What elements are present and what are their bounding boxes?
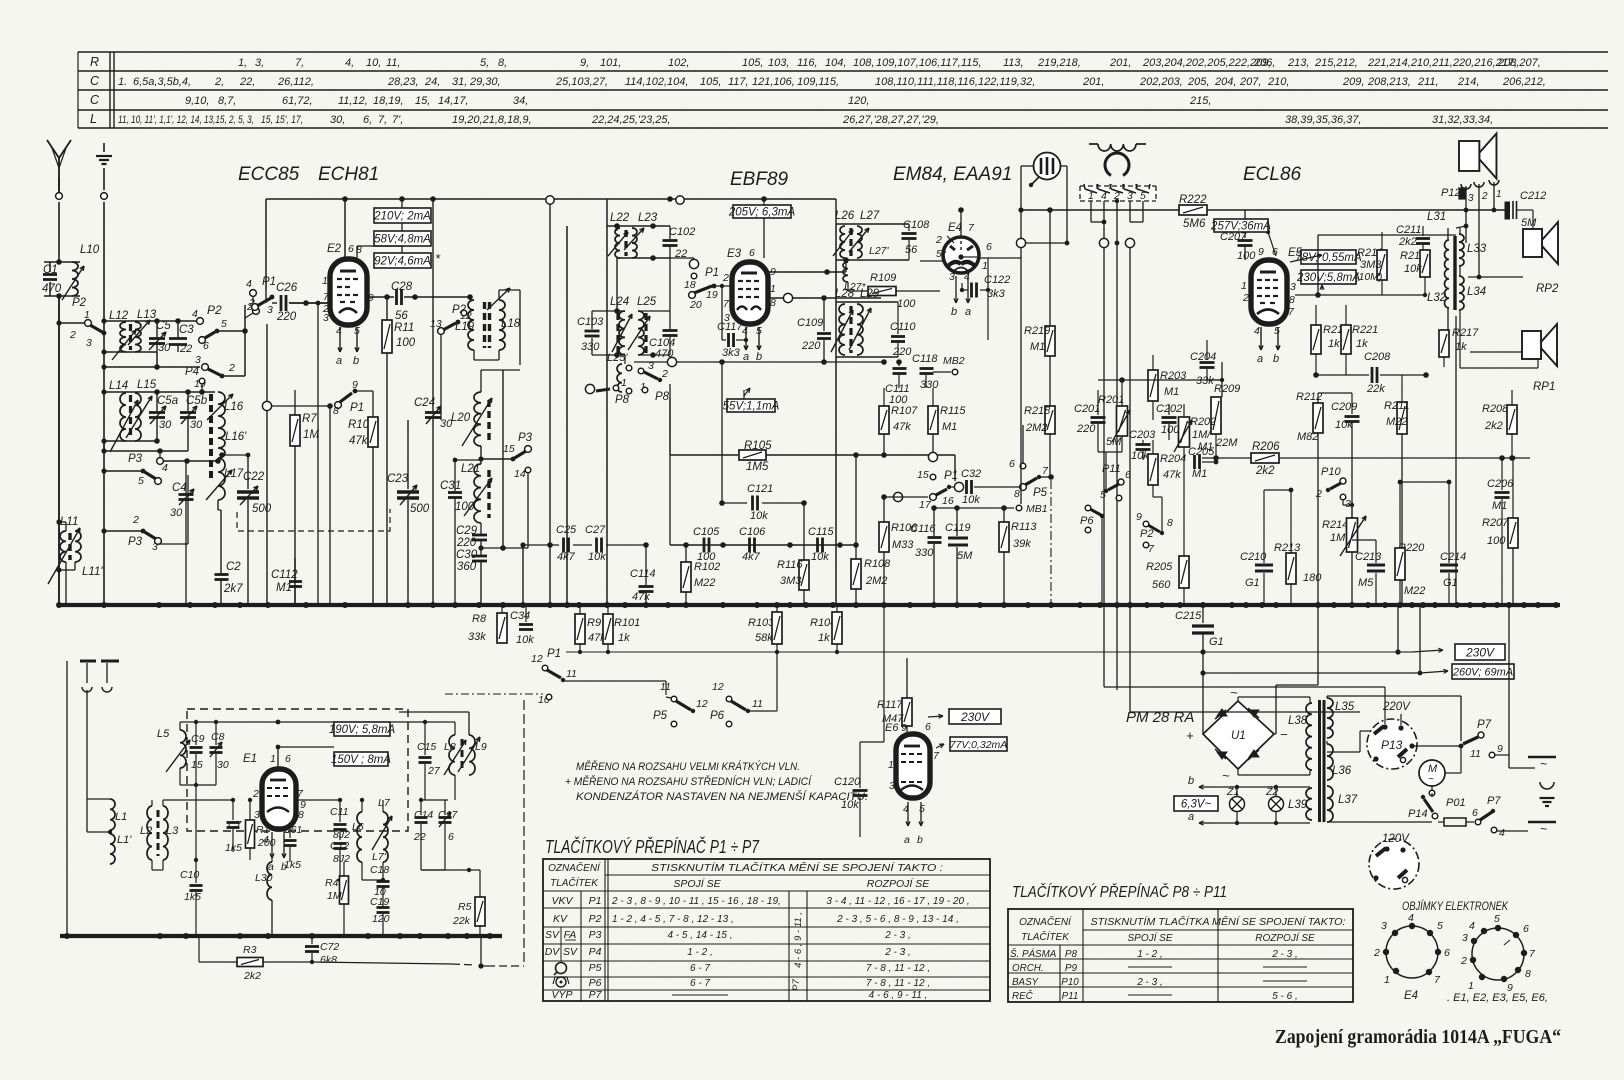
inductor L11 xyxy=(48,516,80,584)
core L12/L13 xyxy=(129,324,132,350)
capacitor C210 xyxy=(1240,488,1293,605)
svg-text:L32: L32 xyxy=(1427,292,1447,304)
switch P2 c xyxy=(1136,497,1173,555)
svg-text:39k: 39k xyxy=(1013,538,1031,550)
wire bridge top xyxy=(1238,697,1310,703)
svg-text:121,106,: 121,106, xyxy=(752,76,795,88)
table2 header xyxy=(1019,915,1346,944)
svg-text:ECC85: ECC85 xyxy=(238,164,300,185)
svg-text:7 - 8 , 11 - 12 ,: 7 - 8 , 11 - 12 , xyxy=(866,978,930,989)
svg-text:C23: C23 xyxy=(387,473,409,485)
svg-text:b: b xyxy=(917,834,923,846)
wire measure 260V line xyxy=(1203,605,1448,675)
svg-text:2: 2 xyxy=(228,362,235,374)
svg-text:R207: R207 xyxy=(1482,517,1509,529)
svg-text:210,: 210, xyxy=(1267,76,1289,88)
svg-text:R4: R4 xyxy=(325,877,339,889)
capacitor C61 xyxy=(283,824,302,871)
capacitor C102 xyxy=(663,226,696,260)
svg-text:8: 8 xyxy=(1167,517,1173,529)
svg-text:R9: R9 xyxy=(587,617,601,629)
svg-text:5M: 5M xyxy=(1106,436,1122,448)
core L21 xyxy=(487,470,490,518)
svg-text:7,: 7, xyxy=(378,114,387,126)
svg-text:6: 6 xyxy=(1444,947,1450,959)
svg-text:15: 15 xyxy=(503,443,515,455)
wire L2 L3 rails xyxy=(110,800,186,876)
wire dashdot p5 line xyxy=(1050,480,1052,605)
svg-text:P3: P3 xyxy=(128,453,143,465)
capacitor C119 xyxy=(945,508,973,605)
svg-text:C11: C11 xyxy=(330,806,348,818)
svg-text:b: b xyxy=(756,351,762,363)
svg-text:1: 1 xyxy=(270,753,276,765)
core L26/27 xyxy=(849,228,852,256)
svg-text:6: 6 xyxy=(1009,458,1015,470)
tube E3 EBF89 xyxy=(732,262,768,324)
label ECH81 xyxy=(318,164,379,185)
svg-text:210V; 2mA: 210V; 2mA xyxy=(373,211,431,223)
svg-text:58k: 58k xyxy=(755,632,773,644)
wire L11 leads xyxy=(56,519,75,605)
svg-text:18,19,: 18,19, xyxy=(373,95,404,107)
svg-text:3: 3 xyxy=(1381,920,1387,932)
svg-text:ROZPOJÍ SE: ROZPOJÍ SE xyxy=(867,877,930,890)
table1 grid xyxy=(543,859,990,1001)
svg-text:C25: C25 xyxy=(556,524,577,536)
svg-text:6 - 7: 6 - 7 xyxy=(690,963,710,974)
svg-text:8,: 8, xyxy=(498,57,507,69)
core L11 xyxy=(68,533,71,560)
mains pin stems xyxy=(1091,199,1143,238)
svg-text:Š. PÁSMA: Š. PÁSMA xyxy=(1010,949,1057,960)
terminal MB2 xyxy=(926,355,965,375)
svg-text:20: 20 xyxy=(689,299,702,311)
svg-text:P4: P4 xyxy=(589,946,602,958)
svg-text:4 - 6 , 9 - 11 ,: 4 - 6 , 9 - 11 , xyxy=(869,990,928,1001)
svg-text:33k: 33k xyxy=(468,631,486,643)
core L2/L3 xyxy=(157,810,160,856)
svg-text:22k: 22k xyxy=(452,915,471,927)
inductor L27'' xyxy=(843,262,867,293)
wire x695 down xyxy=(693,298,695,605)
svg-text:E6: E6 xyxy=(885,722,899,734)
svg-text:26,27,'28,27,27,'29,: 26,27,'28,27,27,'29, xyxy=(842,114,939,126)
svg-text:C7: C7 xyxy=(228,819,243,831)
switch P14 xyxy=(1408,790,1438,820)
svg-text:2 - 3 , 5 - 6 , 8 - 9 ,: 2 - 3 , 5 - 6 , 8 - 9 , 13 - 14 , xyxy=(836,914,959,925)
svg-text:204,: 204, xyxy=(1214,76,1236,88)
inductor L2 xyxy=(140,806,152,860)
core L16 xyxy=(209,394,213,478)
svg-text:6: 6 xyxy=(348,243,354,255)
svg-text:230V: 230V xyxy=(1465,645,1495,659)
svg-text:C61: C61 xyxy=(283,824,302,836)
resistor R10 xyxy=(348,391,378,605)
wire avc line xyxy=(634,357,887,366)
svg-text:P1: P1 xyxy=(350,402,364,414)
svg-text:100: 100 xyxy=(897,298,916,310)
svg-text:28,23,: 28,23, xyxy=(387,76,419,88)
capacitor C12 xyxy=(330,840,350,882)
svg-text:R: R xyxy=(90,55,99,69)
svg-text:4: 4 xyxy=(1254,325,1260,337)
svg-text:5: 5 xyxy=(1437,920,1443,932)
resistor R212 xyxy=(1296,391,1323,605)
svg-text:OZNAČENÍ: OZNAČENÍ xyxy=(548,861,602,874)
wire vertical x330 xyxy=(329,406,331,605)
gramophone pickup xyxy=(1021,153,1067,188)
capacitor C201 xyxy=(1074,390,1106,452)
svg-text:U1: U1 xyxy=(1231,730,1246,742)
ground symbol top xyxy=(96,143,112,190)
svg-text:ROZPOJÍ SE: ROZPOJÍ SE xyxy=(1255,931,1315,944)
svg-text:2: 2 xyxy=(722,272,729,284)
svg-text:R211: R211 xyxy=(1384,400,1409,412)
capacitor C205 xyxy=(1184,446,1218,480)
svg-text:MĚŘENO NA ROZSAHU VELMI KRÁTKÝ: MĚŘENO NA ROZSAHU VELMI KRÁTKÝCH VLN. xyxy=(576,760,800,773)
svg-text:P2: P2 xyxy=(1140,528,1153,540)
svg-text:C34: C34 xyxy=(510,610,530,622)
svg-text:4: 4 xyxy=(742,325,748,337)
index row L values xyxy=(118,114,1493,126)
svg-text:M1: M1 xyxy=(942,421,957,433)
svg-text:R206: R206 xyxy=(1252,441,1280,453)
resistor R7 xyxy=(290,390,319,605)
measure box 230V b xyxy=(907,681,1001,724)
svg-text:2,: 2, xyxy=(214,76,224,88)
inductor L10 xyxy=(62,244,100,300)
svg-text:R219: R219 xyxy=(1024,325,1050,337)
wire C205 r206 connections xyxy=(0,0,1,1)
svg-text:6,5a,3,5b,4,: 6,5a,3,5b,4, xyxy=(133,76,191,88)
svg-text:206,212,: 206,212, xyxy=(1502,76,1546,88)
svg-text:M1: M1 xyxy=(1030,341,1045,353)
resistor R220 xyxy=(1352,480,1425,605)
capacitor C26 xyxy=(272,282,330,323)
svg-text:100: 100 xyxy=(455,501,475,513)
svg-text:2 - 3 ,: 2 - 3 , xyxy=(884,947,911,958)
svg-text:2k2: 2k2 xyxy=(1484,420,1503,432)
capacitor C27 xyxy=(520,524,646,605)
svg-text:11,12,: 11,12, xyxy=(338,95,368,107)
voltage selector 120V xyxy=(1369,822,1419,889)
svg-text:206,: 206, xyxy=(1253,57,1275,69)
wire L36 tap xyxy=(1327,731,1372,752)
svg-text:208,207,: 208,207, xyxy=(1497,57,1541,69)
svg-text:9: 9 xyxy=(368,292,374,304)
svg-text:15: 15 xyxy=(917,469,929,481)
svg-text:1k: 1k xyxy=(818,632,830,644)
table1 header xyxy=(548,861,943,890)
tube socket E4 xyxy=(1373,912,1450,1002)
tube E6 cathode arrows xyxy=(904,802,923,846)
tube E5 ECL86 xyxy=(1251,260,1287,324)
svg-text:109,115,: 109,115, xyxy=(797,76,839,88)
svg-text:L37: L37 xyxy=(1338,794,1358,806)
wire pin1 avc line xyxy=(767,293,881,302)
capacitor C104 xyxy=(638,311,678,360)
svg-text:L29: L29 xyxy=(860,288,880,300)
svg-text:190V; 5,8mA: 190V; 5,8mA xyxy=(329,724,396,736)
svg-text:30: 30 xyxy=(170,507,183,519)
switch P6 c xyxy=(1080,505,1104,605)
wire L14 block rails xyxy=(101,389,159,451)
svg-text:P13: P13 xyxy=(1381,738,1403,752)
wire fm unit top right xyxy=(399,692,469,735)
capacitor C72 xyxy=(305,936,339,966)
svg-text:C103: C103 xyxy=(577,316,604,328)
svg-text:M82: M82 xyxy=(1297,431,1318,443)
svg-text:L17: L17 xyxy=(224,468,244,480)
svg-text:257V;36mA: 257V;36mA xyxy=(1210,221,1271,233)
caption xyxy=(1275,1026,1561,1048)
capacitor C11 xyxy=(296,798,350,841)
svg-text:C211: C211 xyxy=(1396,224,1421,236)
svg-text:TLAČÍTEK: TLAČÍTEK xyxy=(550,876,599,889)
component index table rules xyxy=(78,52,1608,128)
svg-text:C105: C105 xyxy=(693,526,720,538)
svg-text:R115: R115 xyxy=(940,405,966,417)
svg-text:P4: P4 xyxy=(185,366,199,378)
svg-text:27: 27 xyxy=(427,765,441,777)
svg-text:47k: 47k xyxy=(349,435,369,447)
switch P3 lower xyxy=(101,475,188,553)
svg-text:C31: C31 xyxy=(440,480,461,492)
svg-text:L23: L23 xyxy=(638,212,658,224)
wire tube E2 top leads xyxy=(345,199,402,259)
svg-text:22M: 22M xyxy=(1215,437,1238,449)
svg-text:4k7: 4k7 xyxy=(557,551,576,563)
wire hv rail y210 xyxy=(1021,207,1505,213)
tube E2 cathode arrows xyxy=(336,327,359,367)
terminal MB1 xyxy=(931,503,1047,515)
bulb Z2 xyxy=(1265,785,1284,825)
capacitor C207 xyxy=(1220,210,1270,262)
svg-text:5: 5 xyxy=(1274,325,1280,337)
svg-text:P10: P10 xyxy=(1321,466,1341,478)
svg-text:L27: L27 xyxy=(860,210,880,222)
svg-text:P1: P1 xyxy=(944,470,958,482)
svg-text:6 - 7: 6 - 7 xyxy=(690,978,710,989)
svg-text:47k: 47k xyxy=(632,591,650,603)
svg-text:C1: C1 xyxy=(43,264,58,276)
svg-text:7,: 7, xyxy=(295,57,304,69)
svg-text:117,: 117, xyxy=(728,76,749,88)
svg-text:MB2: MB2 xyxy=(943,355,965,367)
resistor R213 xyxy=(1274,490,1322,605)
svg-text:56: 56 xyxy=(395,310,408,322)
svg-text:2 - 3 ,: 2 - 3 , xyxy=(1271,949,1298,960)
wire L28 rails xyxy=(836,302,898,357)
svg-text:L13: L13 xyxy=(137,309,157,321)
wire L8 leads xyxy=(448,712,469,936)
svg-text:b: b xyxy=(353,355,359,367)
svg-text:1k: 1k xyxy=(618,632,630,644)
svg-text:30: 30 xyxy=(190,419,203,431)
svg-text:5: 5 xyxy=(138,475,144,487)
measure box 257V 36mA xyxy=(1210,219,1276,256)
resistor R113 xyxy=(999,508,1037,605)
svg-text:1,: 1, xyxy=(238,57,247,69)
svg-text:2: 2 xyxy=(1242,292,1249,304)
output transformer L33 xyxy=(1459,228,1487,271)
svg-text:C: C xyxy=(90,74,100,88)
svg-text:C102: C102 xyxy=(669,226,695,238)
switch P11 xyxy=(1100,452,1131,501)
heater line b xyxy=(1188,775,1310,789)
svg-text:+ MĚŘENO NA ROZSAHU STŘEDNÍCH: + MĚŘENO NA ROZSAHU STŘEDNÍCH VLN; LADIC… xyxy=(565,775,813,788)
tube E3 cathode arrows xyxy=(743,327,762,363)
svg-text:P5: P5 xyxy=(1033,487,1048,499)
svg-text:77V;0,32mA: 77V;0,32mA xyxy=(950,739,1008,751)
measure box 205V 6.3mA xyxy=(728,205,796,258)
switch P5 d xyxy=(1009,425,1054,500)
svg-text:C209: C209 xyxy=(1331,401,1357,413)
wire left edge bottom xyxy=(67,661,80,936)
capacitor C10 xyxy=(180,785,203,936)
svg-text:M22: M22 xyxy=(1386,416,1407,428)
svg-text:2: 2 xyxy=(1373,947,1380,959)
index row C2 values xyxy=(185,95,1211,107)
svg-text:. E1, E2, E3, E5, E6,: . E1, E2, E3, E5, E6, xyxy=(1447,992,1548,1004)
svg-text:b: b xyxy=(1188,775,1194,787)
svg-text:C2: C2 xyxy=(226,561,241,573)
measure box 230V xyxy=(1398,644,1505,660)
svg-text:11: 11 xyxy=(566,668,577,680)
svg-text:5: 5 xyxy=(919,803,925,815)
svg-text:1k: 1k xyxy=(1455,341,1467,353)
wire bridge minus xyxy=(1274,605,1318,734)
table1 P5 symbol xyxy=(554,963,567,976)
svg-text:92V;4,6mA: 92V;4,6mA xyxy=(374,256,431,268)
svg-text:31,: 31, xyxy=(452,76,467,88)
switch P1 rf xyxy=(246,276,276,316)
resistor R207 xyxy=(1482,456,1518,605)
svg-text:7 - 8 , 11 - 12 ,: 7 - 8 , 11 - 12 , xyxy=(866,963,930,974)
svg-text:L20: L20 xyxy=(451,412,471,424)
capacitor C214 xyxy=(1400,480,1466,605)
svg-text:5: 5 xyxy=(936,248,942,260)
svg-text:R102: R102 xyxy=(694,561,720,573)
svg-text:C112: C112 xyxy=(271,569,298,581)
svg-text:205,: 205, xyxy=(1187,76,1209,88)
svg-text:3: 3 xyxy=(1462,932,1468,944)
svg-text:3,: 3, xyxy=(255,57,264,69)
svg-text:~: ~ xyxy=(1540,757,1547,771)
svg-text:219,218,: 219,218, xyxy=(1037,57,1081,69)
svg-text:L28: L28 xyxy=(835,288,855,300)
inductor L9 xyxy=(458,735,487,775)
svg-text:9: 9 xyxy=(901,722,907,734)
svg-text:109,107,106,117,115,: 109,107,106,117,115, xyxy=(876,57,981,69)
wire y548 link xyxy=(481,545,528,551)
wire x59 lower xyxy=(58,296,60,605)
resistor R109 xyxy=(848,272,940,310)
capacitor C28 xyxy=(366,281,473,322)
svg-text:4k7: 4k7 xyxy=(742,551,761,563)
svg-text:6: 6 xyxy=(986,241,992,253)
svg-text:R201: R201 xyxy=(1098,394,1124,406)
dashed unit boundary xyxy=(187,709,408,831)
potentiometer R214 xyxy=(1322,505,1366,605)
svg-text:M5: M5 xyxy=(1358,577,1374,589)
svg-text:9,10,: 9,10, xyxy=(185,95,209,107)
svg-text:220: 220 xyxy=(801,340,821,352)
svg-text:C5b: C5b xyxy=(186,395,208,407)
power transformer L38 xyxy=(1288,703,1312,770)
speaker top xyxy=(1459,134,1496,183)
svg-text:P2: P2 xyxy=(72,297,87,309)
svg-text:2: 2 xyxy=(1315,488,1322,500)
svg-text:R11: R11 xyxy=(394,322,414,334)
svg-text:L12: L12 xyxy=(109,310,129,322)
svg-text:220: 220 xyxy=(892,346,912,358)
svg-text:R117: R117 xyxy=(877,699,903,711)
svg-text:15: 15 xyxy=(191,759,203,771)
wire secondary taps xyxy=(1327,696,1461,786)
svg-text:8: 8 xyxy=(1525,968,1531,980)
svg-text:11: 11 xyxy=(1470,748,1481,760)
capacitor C111 xyxy=(885,359,910,406)
svg-text:330: 330 xyxy=(915,547,934,559)
tube E6 xyxy=(896,734,930,798)
svg-text:213,: 213, xyxy=(1287,57,1309,69)
mains pins 1 4 2 3 5 xyxy=(1084,184,1150,202)
svg-text:6: 6 xyxy=(925,721,931,733)
svg-text:6: 6 xyxy=(749,247,755,259)
svg-text:P6: P6 xyxy=(710,710,725,722)
capacitor C9 xyxy=(190,720,205,785)
table1 title xyxy=(545,836,760,857)
svg-text:230V: 230V xyxy=(960,710,990,724)
svg-text:1: 1 xyxy=(1241,280,1247,292)
capacitor C213 xyxy=(1352,485,1385,605)
svg-text:1M5: 1M5 xyxy=(746,461,769,473)
wire x1457 down xyxy=(1456,308,1457,605)
svg-text:R3: R3 xyxy=(243,944,257,956)
resistor R210 xyxy=(1355,232,1387,295)
capacitor C215 xyxy=(1175,605,1224,734)
svg-text:108,110,111,118,116,122,119,32: 108,110,111,118,116,122,119,32, xyxy=(875,76,1035,88)
svg-text:C205: C205 xyxy=(1188,446,1215,458)
wire right mains xyxy=(1509,605,1556,789)
wire L21top-C31 xyxy=(455,459,481,461)
trimmer C5 xyxy=(149,320,171,354)
svg-text:120,: 120, xyxy=(848,95,869,107)
capacitor C1 xyxy=(42,262,62,296)
capacitor C204 xyxy=(1190,340,1224,397)
svg-text:1M: 1M xyxy=(1330,532,1346,544)
svg-text:1k5: 1k5 xyxy=(184,891,201,903)
svg-text:VKV: VKV xyxy=(551,895,573,907)
svg-text:10k: 10k xyxy=(1335,419,1353,431)
svg-text:L33: L33 xyxy=(1467,243,1487,255)
svg-text:10k: 10k xyxy=(516,634,534,646)
svg-text:1M: 1M xyxy=(303,429,319,441)
power transformer L36 xyxy=(1327,744,1352,780)
inductor L19 xyxy=(455,300,475,350)
resistor R205 xyxy=(1146,462,1189,605)
core L28/29 xyxy=(849,306,852,353)
svg-text:L7': L7' xyxy=(372,851,387,863)
svg-text:P6: P6 xyxy=(589,977,602,989)
capacitor C105 xyxy=(693,526,720,563)
resistor R216 xyxy=(1400,241,1430,297)
svg-text:C106: C106 xyxy=(739,526,766,538)
svg-text:C5: C5 xyxy=(156,320,171,332)
inductor L16' xyxy=(218,428,247,458)
